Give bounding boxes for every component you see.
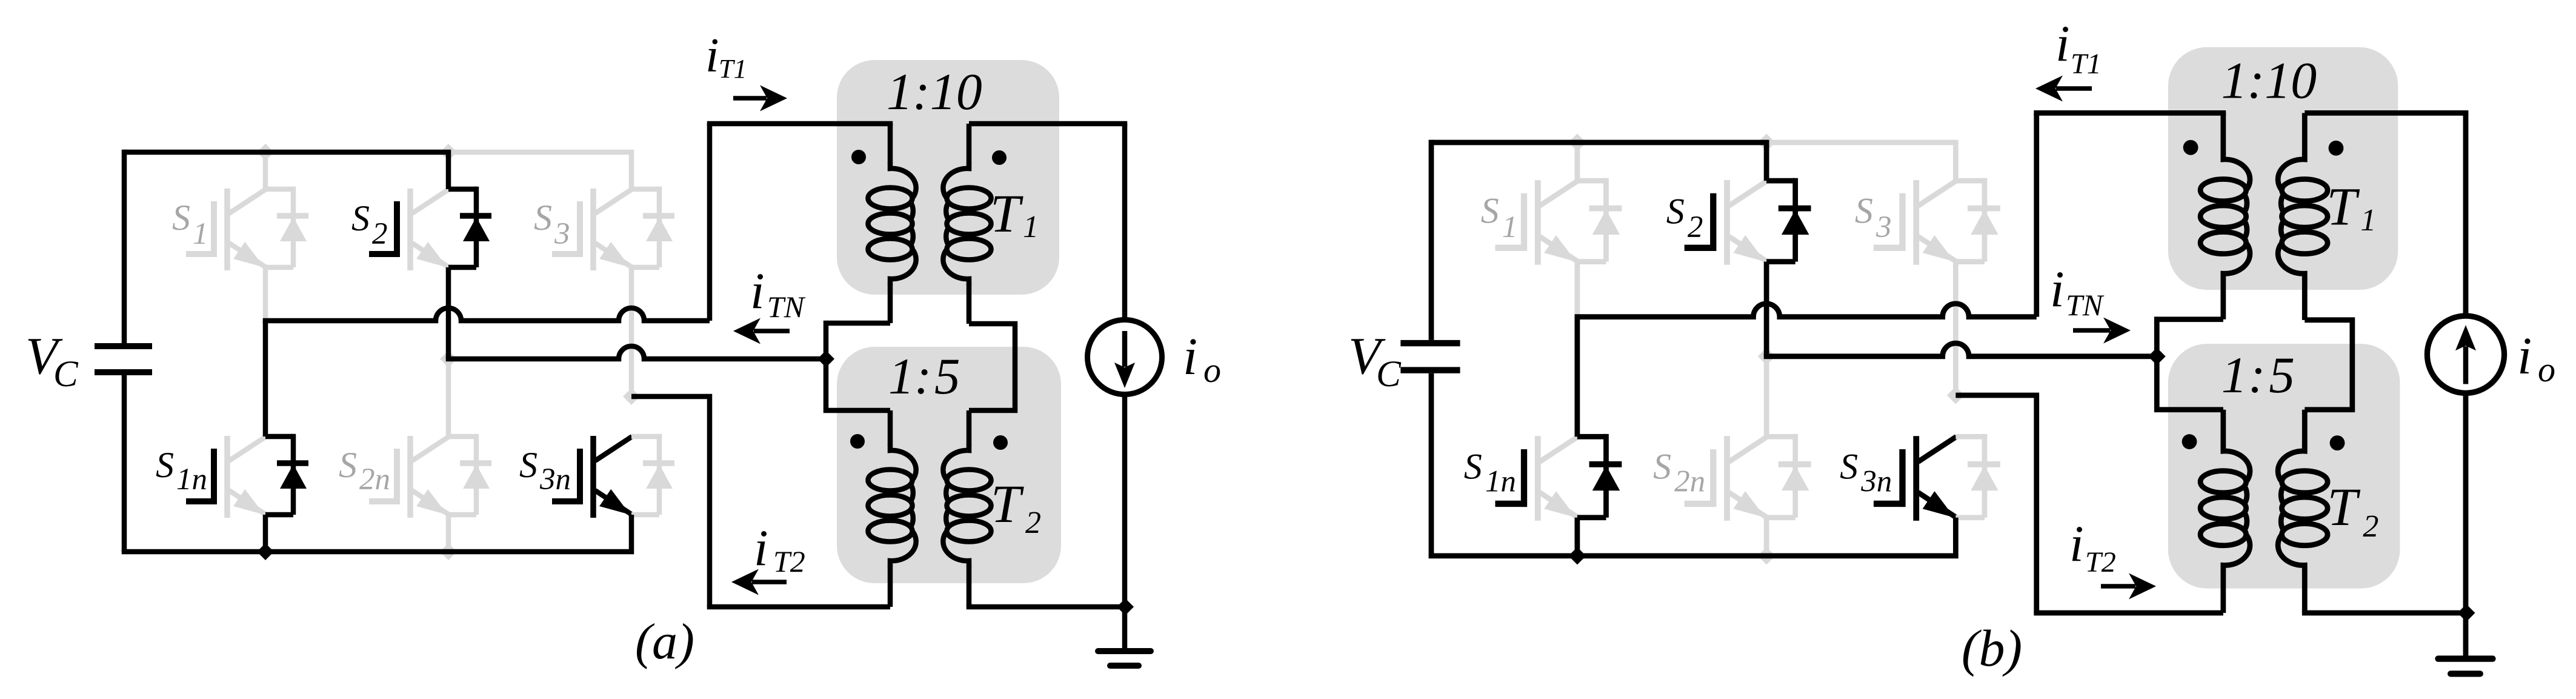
polarity dot T2 secondary	[993, 435, 1008, 450]
current source io circle	[1122, 124, 1128, 320]
transformer T1 shaded box	[837, 60, 1059, 295]
svg-text:1:10: 1:10	[2222, 52, 2317, 110]
node: S2 leg / lower mid wire junction (gray diamond)	[440, 350, 457, 367]
svg-text:3n: 3n	[1860, 464, 1892, 498]
wire iT1 vertical up to transformer top wire	[707, 124, 713, 321]
wire top rail (black) VC+ to S2, jog down into S2 diode	[124, 152, 448, 189]
svg-text:T: T	[2327, 478, 2360, 537]
current arrow iT1 (points right)	[733, 96, 767, 101]
current arrow iT2 (b, points right)	[2101, 584, 2135, 589]
node: S1 collector / top rail junction (gray diamond)	[257, 144, 274, 161]
svg-text:S: S	[339, 445, 357, 485]
svg-text:3n: 3n	[539, 463, 571, 497]
node: S2 corner / gray rail junction (gray diamond)	[440, 144, 457, 161]
svg-text:TN: TN	[2066, 288, 2105, 322]
node: output bottom junction (black diamond)	[1117, 598, 1134, 615]
svg-text:1: 1	[1023, 210, 1039, 244]
svg-text:S: S	[1481, 190, 1499, 230]
circuit (a)	[95, 60, 1162, 666]
current arrow iTN (b, points right)	[2073, 328, 2110, 333]
wire top rail gray segment S2->S3 with corner into S3	[448, 152, 631, 189]
wire S2 leg black: diode bottom down to lower mid wire	[446, 267, 451, 359]
svg-text:2n: 2n	[359, 463, 390, 497]
svg-text:i: i	[2517, 326, 2532, 385]
capacitor VC plates	[95, 343, 152, 349]
svg-text:S: S	[1855, 190, 1873, 230]
svg-text:5: 5	[2269, 347, 2295, 404]
wire iT2 bottom: vertical to T2 primary bottom	[707, 604, 890, 610]
wire lower mid (iTN): S2 node to center tap (hops over S3 leg)	[446, 346, 826, 359]
svg-text:2: 2	[2363, 509, 2378, 544]
wire S1 emitter lead down to node (gray)	[263, 267, 268, 321]
wire S1 collector lead (gray)	[263, 152, 268, 189]
svg-text:2: 2	[1025, 506, 1041, 540]
svg-text:T: T	[2326, 178, 2360, 237]
svg-text:S: S	[351, 198, 370, 238]
svg-text:S: S	[1840, 447, 1858, 487]
wire T1 secondary bottom to link vertical	[969, 324, 1015, 410]
wire T2 secondary bottom to io/ground	[967, 604, 1125, 610]
svg-text:T1: T1	[2071, 48, 2102, 80]
svg-text:1: 1	[193, 217, 208, 251]
svg-text:C: C	[1376, 354, 1402, 395]
wire S1n leg black: upper-mid corner down through diode to bottom rail	[263, 321, 268, 436]
svg-text:1:10: 1:10	[887, 62, 982, 121]
node: S1n emitter / bottom rail junction (black diamond)	[257, 543, 274, 560]
svg-text:2: 2	[372, 217, 388, 251]
svg-text:T2: T2	[773, 544, 805, 578]
svg-text::: :	[914, 348, 931, 405]
svg-text:5: 5	[934, 348, 960, 405]
transformer T1 primary winding	[888, 124, 893, 164]
wire S2n emitter lead (gray)	[446, 515, 451, 552]
svg-text:i: i	[705, 28, 719, 82]
svg-text:3: 3	[554, 217, 570, 251]
diode of S2 (black, conducting)	[448, 187, 476, 192]
svg-text:1: 1	[1502, 210, 1518, 244]
wire T1 primary bottom jog to center tap	[826, 323, 890, 359]
transformer T1 secondary winding	[967, 124, 972, 164]
svg-text:(b): (b)	[1962, 619, 2022, 677]
svg-text:1n: 1n	[1485, 464, 1516, 498]
current source arrow io (b, points up)	[2463, 346, 2469, 384]
svg-text:i: i	[1183, 327, 1197, 386]
svg-text:o: o	[1203, 350, 1221, 390]
transistor S2 body (gray, diode drawn black later)	[369, 189, 449, 270]
transformer T2 secondary winding	[967, 410, 972, 446]
node: S2n emitter / bottom rail junction (gray diamond)	[440, 543, 457, 560]
svg-text:1: 1	[2222, 347, 2248, 404]
svg-text:1n: 1n	[176, 463, 207, 497]
svg-text:T: T	[990, 184, 1023, 244]
polarity dot T2 primary	[850, 434, 865, 449]
node: center tap junction (black diamond)	[817, 350, 834, 367]
svg-text:T1: T1	[719, 54, 747, 84]
svg-text:i: i	[2055, 15, 2070, 72]
current source arrow io (points down)	[1122, 331, 1128, 367]
svg-text:TN: TN	[767, 290, 806, 324]
wire left rail: VC+ down to capacitor	[122, 150, 127, 343]
diode of S1n (black, conducting)	[265, 434, 293, 440]
svg-text:i: i	[754, 520, 768, 577]
svg-text:i: i	[2069, 515, 2084, 572]
transformer T2 primary winding	[888, 410, 893, 446]
svg-text:C: C	[53, 354, 79, 395]
wire S2n collector lead (gray)	[446, 359, 451, 436]
svg-text:1: 1	[888, 348, 914, 405]
svg-text:S: S	[519, 445, 537, 485]
polarity dot T1 secondary	[992, 150, 1007, 165]
current arrow iTN (points left)	[754, 329, 790, 333]
wire center tap down and over to T2 primary	[826, 359, 890, 410]
transistor S3 (inactive IGBT, gray)	[552, 187, 674, 270]
svg-text:(a): (a)	[635, 614, 694, 670]
transistor S3n active body (black) with gray diode	[552, 434, 674, 518]
wire bottom rail to S3n emitter	[122, 515, 631, 552]
current arrow iT2 (points left)	[752, 580, 787, 584]
circuit (b): reused graphics	[1400, 47, 2504, 674]
wire S3 emitter lead down to S3n collector node (gray)	[629, 267, 634, 396]
wire VC- down to bottom rail	[122, 375, 127, 552]
svg-text:2: 2	[1688, 210, 1703, 244]
wire S3n collector jog to iT2 vertical	[631, 396, 710, 607]
svg-text:i: i	[750, 263, 765, 319]
svg-text:1: 1	[2360, 203, 2376, 238]
svg-text:o: o	[2538, 350, 2555, 389]
svg-text:2n: 2n	[1674, 464, 1705, 498]
svg-text:S: S	[1666, 191, 1685, 231]
svg-text:T2: T2	[2085, 546, 2116, 578]
svg-text:S: S	[1653, 447, 1671, 487]
current arrow iT1 (b, points left)	[2056, 86, 2092, 91]
svg-text:3: 3	[1875, 210, 1892, 244]
svg-text:i: i	[2050, 261, 2065, 318]
ground symbol	[1098, 648, 1151, 654]
svg-text:S: S	[156, 445, 174, 485]
svg-text:S: S	[534, 198, 552, 238]
wire top: T1 secondary to io line	[969, 121, 1127, 127]
svg-text::: :	[2248, 347, 2265, 404]
transformer T2 shaded box	[837, 347, 1061, 583]
svg-text:T: T	[991, 475, 1024, 534]
svg-text:S: S	[1464, 447, 1482, 487]
polarity dot T1 primary	[851, 150, 866, 164]
transistor S2n (inactive IGBT, gray)	[369, 434, 491, 518]
transistor S1 (inactive IGBT symbol, gray)	[186, 187, 308, 270]
wire top: iT1 vertical to T1 primary	[707, 121, 893, 127]
transistor S1n body (gray, diode black later)	[186, 436, 266, 518]
svg-text:S: S	[172, 198, 190, 238]
node: S3 leg / S3n collector junction (gray diamond)	[623, 388, 640, 405]
wire upper mid: S1n node to iT1 vertical (hops over S2,S3 legs)	[263, 308, 710, 321]
